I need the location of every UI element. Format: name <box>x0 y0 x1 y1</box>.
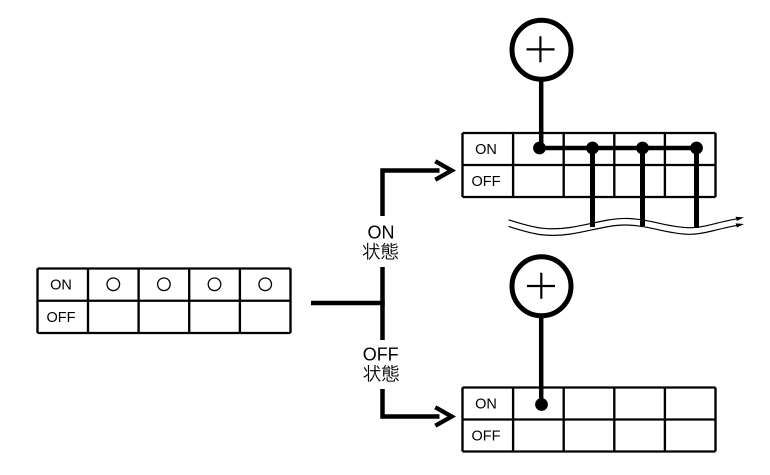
svg-text:OFF: OFF <box>363 345 399 365</box>
svg-text:ON: ON <box>368 222 395 242</box>
svg-text:ON: ON <box>50 278 72 294</box>
svg-text:OFF: OFF <box>472 174 501 190</box>
svg-text:OFF: OFF <box>47 310 76 326</box>
svg-text:OFF: OFF <box>472 429 501 445</box>
svg-text:ON: ON <box>475 142 497 158</box>
svg-text:ON: ON <box>475 397 497 413</box>
